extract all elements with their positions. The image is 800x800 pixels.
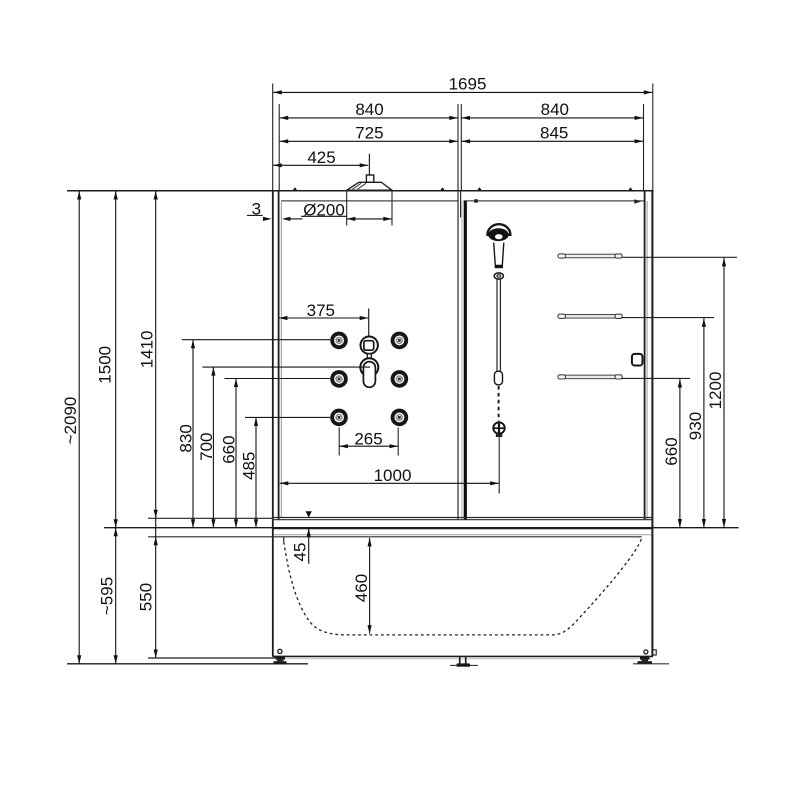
tub rim top bold part	[273, 528, 653, 530]
left wall inner glass	[278, 191, 280, 520]
inner top rail left section	[281, 200, 458, 202]
extension middle a	[457, 104, 459, 190]
cabin top line	[67, 190, 654, 192]
tub rim top reference line	[104, 527, 739, 529]
svg-text:460: 460	[352, 574, 371, 602]
svg-text:485: 485	[240, 452, 259, 480]
dim 265	[339, 445, 398, 447]
left foot	[276, 656, 286, 659]
dim 45 upper arrow	[306, 511, 312, 517]
svg-text:425: 425	[307, 148, 335, 167]
hand shower band	[495, 265, 503, 268]
ground line under right foot	[633, 663, 669, 665]
tub apron bottom line	[273, 655, 654, 657]
ground line left	[67, 663, 308, 665]
dim 700	[212, 367, 214, 528]
left wall outer glass	[272, 191, 274, 657]
shelf 2 leader	[621, 317, 714, 319]
dim 830	[192, 340, 194, 528]
door roller mark right	[634, 199, 641, 204]
svg-text:1500: 1500	[96, 346, 115, 384]
jet row2 left	[330, 370, 348, 388]
svg-text:725: 725	[355, 123, 383, 142]
left foot adjuster circle	[278, 649, 282, 653]
inner top rail right section	[464, 200, 644, 202]
middle partition stub	[460, 191, 462, 218]
cabin floor tick left	[148, 517, 273, 519]
hand shower nut	[494, 273, 503, 279]
dim 1200	[723, 258, 725, 528]
jet row2 right	[391, 370, 409, 388]
hand shower handle	[494, 243, 504, 266]
leader 830	[182, 339, 330, 341]
middle partition shadow	[461, 201, 463, 520]
dim 425	[273, 164, 368, 166]
dim 660 left	[235, 379, 237, 528]
svg-text:660: 660	[662, 437, 681, 465]
dim O200	[347, 218, 392, 220]
O200 extension right	[391, 191, 393, 226]
tub apron bottom tick	[148, 657, 277, 659]
jet row1 left	[330, 332, 348, 350]
ground line under middle foot	[450, 664, 478, 666]
mixer diverter square	[364, 341, 374, 351]
right wall inner	[644, 191, 646, 520]
dim 485	[255, 417, 257, 527]
right foot adjuster circle	[644, 650, 648, 654]
jet row3 right	[391, 409, 409, 427]
hose dashed	[498, 386, 500, 421]
shower rail line b	[499, 279, 501, 371]
svg-text:45: 45	[291, 543, 310, 562]
leader 660 left	[225, 378, 331, 380]
shelf 2	[557, 314, 622, 318]
right foot	[640, 656, 650, 659]
dim 840 right	[462, 117, 644, 119]
middle partition thin line	[457, 191, 459, 520]
tub apron bottom shadow	[277, 658, 651, 660]
mixer neck	[367, 354, 371, 360]
hand shower inner ring	[495, 234, 504, 240]
rain head hatch	[353, 183, 362, 189]
svg-text:~595: ~595	[98, 577, 117, 615]
hose coupling	[494, 371, 502, 385]
panel joint tick 1	[293, 187, 298, 190]
dim 840 left	[280, 117, 458, 119]
shelf 3	[557, 375, 622, 379]
svg-text:1410: 1410	[138, 330, 157, 368]
dim 660 right	[679, 379, 681, 528]
door roller mark left	[474, 199, 478, 203]
cabin floor line lower	[272, 519, 653, 521]
265 extension left	[338, 428, 340, 456]
svg-text:265: 265	[354, 430, 382, 449]
middle foot	[459, 657, 461, 665]
svg-text:1000: 1000	[374, 466, 412, 485]
sliding door edge bar	[464, 201, 467, 520]
extension line 1695 left	[272, 84, 274, 191]
dim 1695	[273, 91, 652, 93]
shelf 3 leader	[621, 377, 690, 379]
svg-text:550: 550	[137, 583, 156, 611]
cabin floor line upper	[272, 517, 653, 519]
dim 1000	[280, 482, 499, 484]
dim 1500 / ~595 line	[115, 191, 117, 664]
hand shower dome	[487, 224, 510, 235]
tub inner edge tick	[283, 537, 285, 542]
right wall notch	[653, 650, 656, 655]
rain head cone	[347, 182, 392, 190]
rain head neck square	[366, 175, 373, 182]
jet row3 left	[330, 409, 348, 427]
svg-text:830: 830	[177, 424, 196, 452]
right wall shadow	[646, 201, 648, 520]
O200 extension left	[346, 191, 348, 226]
tub inner bowl dashed outline	[284, 538, 642, 635]
right wall outer	[651, 191, 653, 657]
dim ~2090	[78, 191, 80, 664]
tub rim shadow line	[274, 534, 651, 536]
svg-text:375: 375	[307, 301, 335, 320]
panel joint tick 4	[628, 187, 633, 190]
svg-text:660: 660	[220, 435, 239, 463]
tub inner lip line	[148, 536, 642, 538]
svg-text:930: 930	[686, 412, 705, 440]
svg-text:845: 845	[540, 123, 568, 142]
dim 1410 / 550 line	[155, 191, 157, 658]
1000 extension line	[498, 437, 500, 494]
svg-text:700: 700	[197, 433, 216, 461]
mixer body ring	[360, 358, 378, 376]
svg-text:840: 840	[355, 100, 383, 119]
dim 45 lower arrow and shaft	[307, 528, 311, 537]
rain head stem / 425 extension	[368, 154, 370, 175]
dim 460	[369, 538, 371, 634]
mixer diverter ring	[361, 337, 378, 354]
extension line 840 right	[643, 104, 645, 190]
panel joint tick 2	[440, 187, 445, 190]
extension middle b	[460, 104, 462, 190]
door handle	[632, 354, 643, 366]
water inlet crosshair circle	[493, 422, 504, 433]
inlet bracket	[496, 434, 502, 437]
mixer lever capsule	[363, 362, 375, 388]
left wall shadow	[280, 201, 282, 518]
dim 930	[703, 318, 705, 527]
shelf 1 leader	[623, 256, 738, 258]
3 arrows	[263, 217, 272, 221]
panel joint tick 3	[477, 187, 482, 190]
leader 700 to mixer	[202, 366, 370, 368]
shelf 1	[557, 254, 622, 258]
extension line 1695 right	[652, 84, 654, 191]
svg-text:1200: 1200	[706, 372, 725, 410]
265 extension right	[397, 428, 399, 456]
shower rail line a	[496, 279, 498, 371]
svg-text:~2090: ~2090	[61, 397, 80, 445]
extension line 840 left	[278, 104, 280, 190]
hand shower face	[488, 228, 509, 241]
dim 725	[280, 140, 458, 142]
svg-text:840: 840	[541, 100, 569, 119]
jet row1 right	[391, 332, 409, 350]
leader 485	[245, 416, 330, 418]
dim 845	[462, 140, 644, 142]
svg-text:1695: 1695	[449, 75, 487, 94]
dim 375	[279, 317, 368, 319]
mixer stem / 375 extension	[368, 309, 370, 337]
